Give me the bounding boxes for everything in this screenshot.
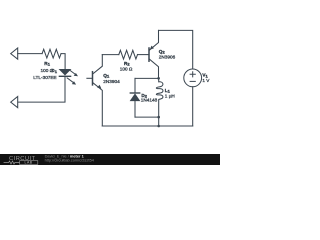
transistor Q2 emitter bbox=[149, 30, 158, 50]
LED light arrow 1 bbox=[69, 70, 75, 75]
voltage source V1 bbox=[184, 69, 202, 87]
wire Q1 collector to R2 bbox=[102, 54, 119, 56]
wire top-left to R1 bbox=[18, 53, 42, 55]
svg-text:LTL-307EE: LTL-307EE bbox=[33, 75, 56, 80]
svg-text:LAB: LAB bbox=[25, 161, 33, 165]
transistor Q2 base bar bbox=[148, 48, 150, 61]
svg-text:R1: R1 bbox=[44, 61, 50, 67]
svg-text:100 Ω: 100 Ω bbox=[120, 67, 133, 72]
svg-text:2N3906: 2N3906 bbox=[159, 55, 176, 60]
wire top link D2/L1 bbox=[135, 77, 159, 79]
transistor Q2 collector bbox=[149, 59, 158, 78]
svg-text:D1: D1 bbox=[51, 68, 57, 74]
svg-text:1 V: 1 V bbox=[202, 78, 210, 83]
wire V1 to bottom rail bbox=[192, 87, 194, 126]
svg-text:Q1: Q1 bbox=[103, 73, 110, 79]
CircuitLab logo zigzag bbox=[4, 161, 20, 164]
resistor R2 bbox=[119, 50, 138, 59]
LED D1 bbox=[60, 69, 71, 75]
resistor R1 bbox=[42, 49, 61, 58]
transistor Q1 emitter arrow bbox=[97, 85, 101, 89]
terminal flag bottom-left bbox=[11, 97, 18, 108]
bottom rail wire bbox=[102, 125, 192, 127]
node junction bottom link / L1 bbox=[157, 116, 160, 119]
node junction L1 / bottom rail bbox=[157, 125, 160, 128]
wire bottom link D2 to L1 bbox=[135, 116, 159, 118]
LED light arrow 2 bbox=[67, 78, 73, 83]
transistor Q1 emitter bbox=[93, 83, 103, 126]
CircuitLab logo LAB box bbox=[20, 161, 38, 165]
wire LED to bottom terminal bbox=[18, 76, 65, 102]
wire Q2 emitter to V1 bbox=[159, 30, 193, 69]
svg-text:2N3904: 2N3904 bbox=[103, 79, 120, 84]
svg-text:http://circuitlab.com/c/2s2t54: http://circuitlab.com/c/2s2t54 bbox=[45, 158, 95, 163]
transistor Q1 base bar bbox=[92, 72, 94, 85]
transistor Q1 collector bbox=[93, 55, 103, 74]
transistor Q1 base lead bbox=[87, 77, 93, 79]
svg-text:1 µH: 1 µH bbox=[165, 94, 175, 99]
watermark bar bbox=[0, 154, 220, 165]
wire R2 to Q2 base bbox=[138, 54, 150, 56]
transistor Q2 emitter arrow bbox=[150, 46, 154, 50]
wire R1 to LED corner bbox=[61, 54, 65, 70]
diode D2 bbox=[134, 78, 136, 92]
inductor L1 bbox=[156, 78, 163, 126]
terminal flag top-left bbox=[11, 48, 18, 59]
node junction Q2 collector / L1 bbox=[157, 77, 160, 80]
svg-text:1N4148: 1N4148 bbox=[141, 98, 158, 103]
